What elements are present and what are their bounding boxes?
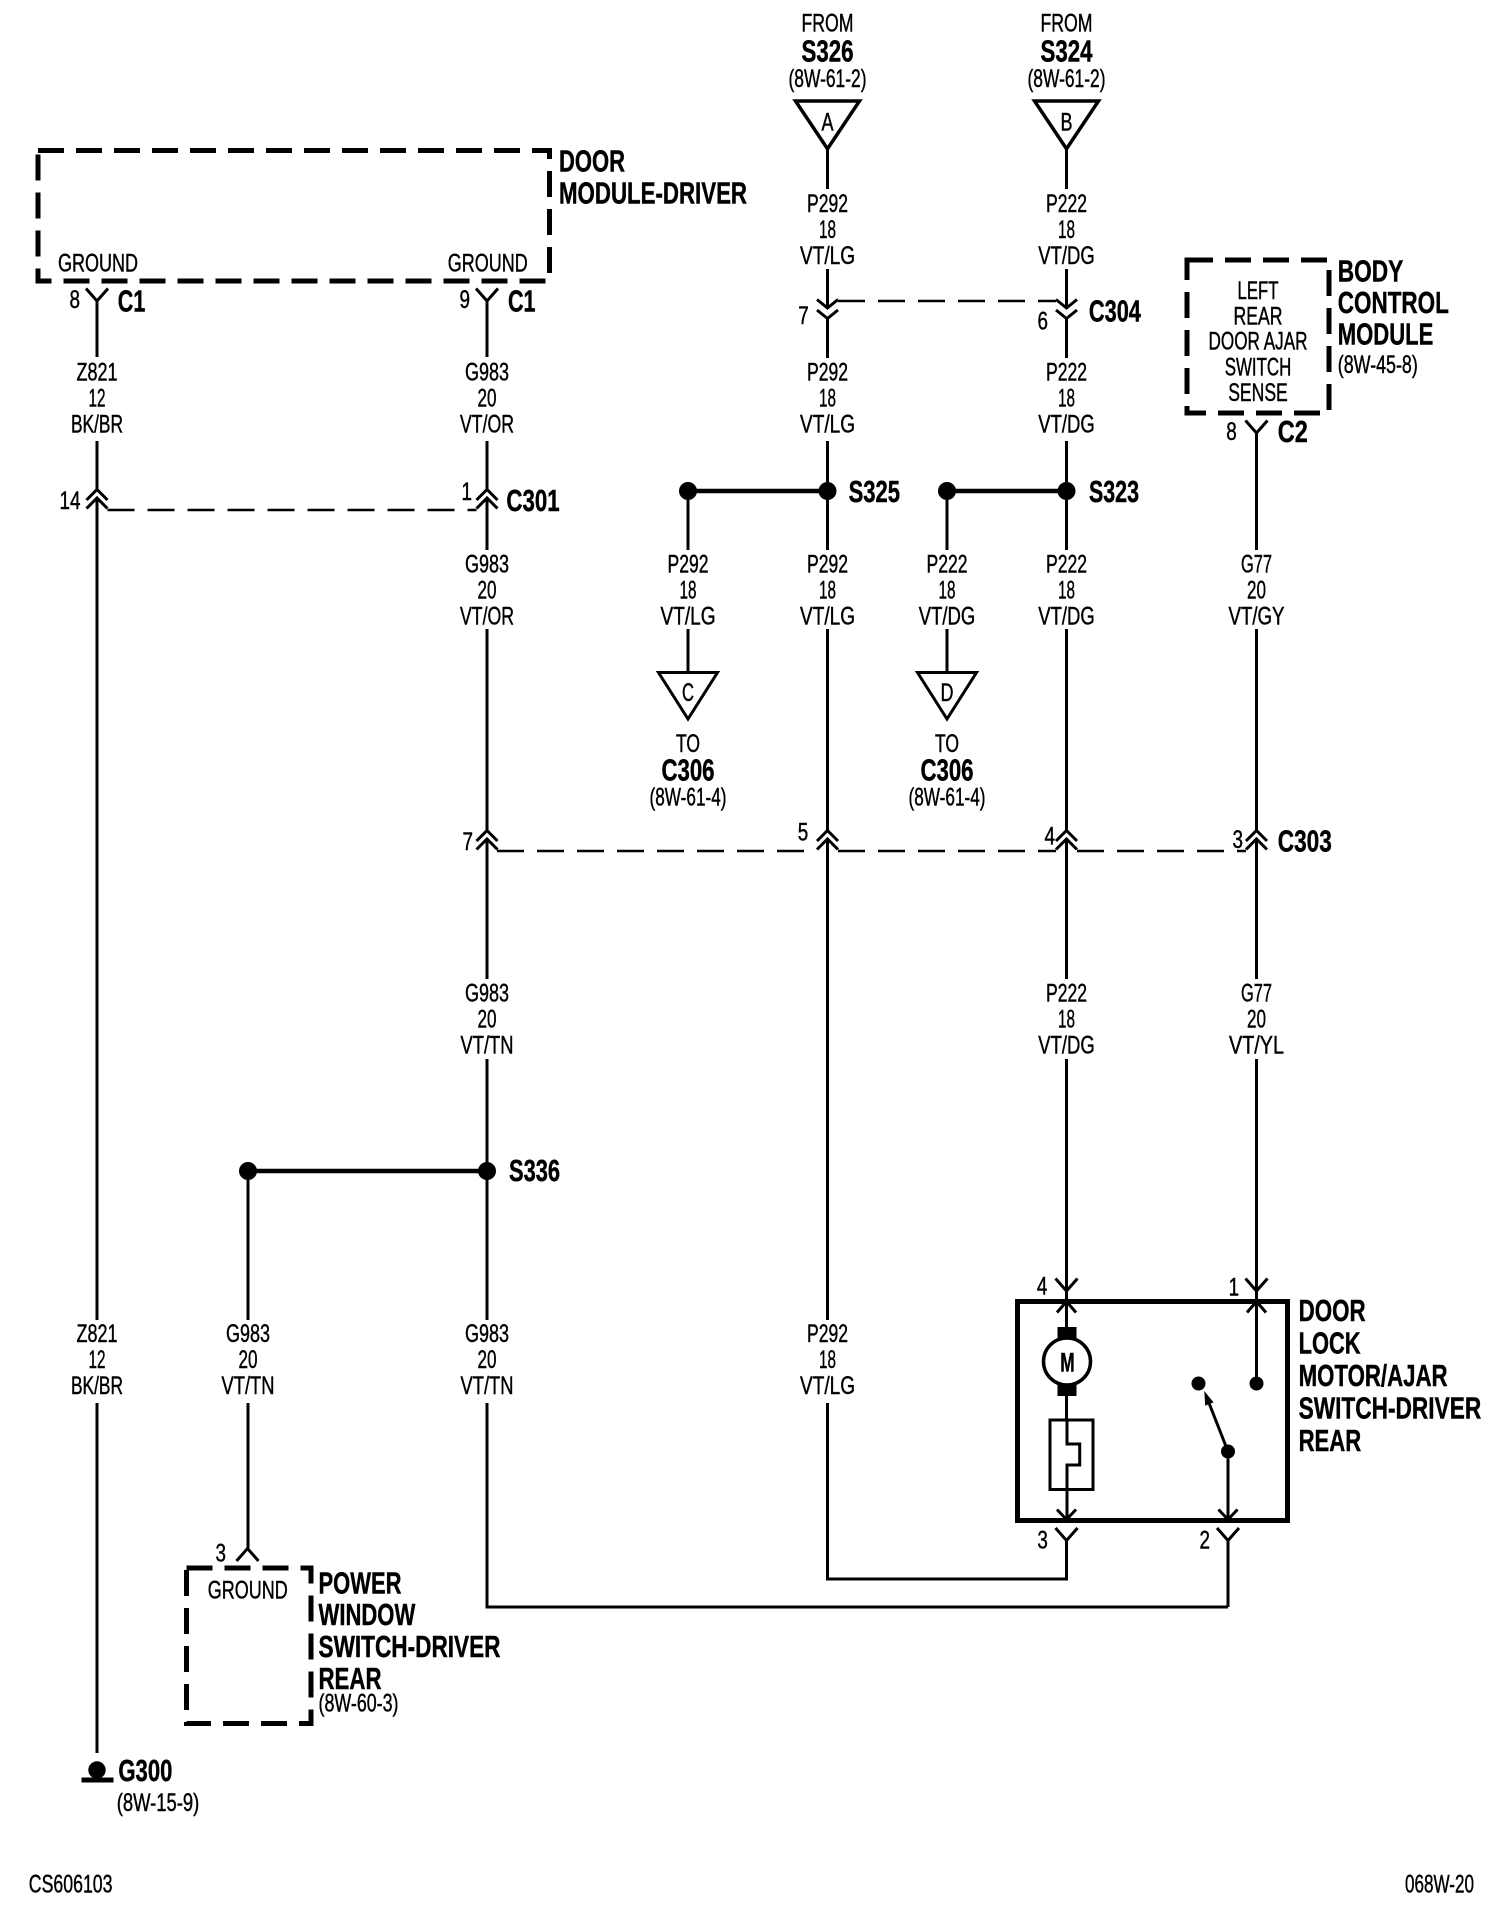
splice S325 branch dot bbox=[679, 482, 697, 500]
wire P222 to door lock motor pin 4 bbox=[1065, 1059, 1068, 1291]
svg-text:18: 18 bbox=[819, 216, 836, 244]
svg-text:P222: P222 bbox=[1046, 358, 1087, 386]
svg-text:(8W-61-4): (8W-61-4) bbox=[650, 783, 727, 811]
svg-text:5: 5 bbox=[798, 818, 809, 846]
in-line connector C303 pin 7 bbox=[477, 831, 498, 842]
svg-text:18: 18 bbox=[680, 576, 697, 604]
wire Z821 to connector C301 pin 14 bbox=[96, 441, 99, 490]
svg-text:D: D bbox=[941, 679, 954, 707]
svg-text:18: 18 bbox=[819, 384, 836, 412]
wire G983 S336 left branch bbox=[247, 1180, 250, 1320]
svg-text:14: 14 bbox=[60, 487, 81, 515]
svg-text:LOCK: LOCK bbox=[1299, 1326, 1361, 1361]
svg-text:G983: G983 bbox=[465, 1320, 509, 1348]
wire P292 to C304 pin 7 bbox=[826, 269, 829, 306]
svg-text:7: 7 bbox=[798, 302, 809, 330]
svg-text:4: 4 bbox=[1037, 1272, 1048, 1300]
svg-text:MOTOR/AJAR: MOTOR/AJAR bbox=[1299, 1358, 1448, 1393]
svg-text:1: 1 bbox=[462, 478, 473, 506]
svg-text:P292: P292 bbox=[807, 1320, 848, 1348]
ajar switch pivot node bbox=[1221, 1445, 1235, 1459]
svg-text:VT/LG: VT/LG bbox=[800, 1372, 855, 1400]
svg-text:20: 20 bbox=[1247, 576, 1266, 604]
svg-text:(8W-61-2): (8W-61-2) bbox=[1028, 65, 1106, 93]
svg-text:S326: S326 bbox=[802, 34, 854, 69]
svg-text:VT/LG: VT/LG bbox=[800, 242, 855, 270]
svg-text:POWER: POWER bbox=[319, 1566, 402, 1601]
svg-text:3: 3 bbox=[1037, 1526, 1048, 1554]
svg-text:G983: G983 bbox=[226, 1320, 270, 1348]
svg-text:S324: S324 bbox=[1041, 34, 1094, 69]
svg-text:VT/TN: VT/TN bbox=[222, 1372, 275, 1400]
wire G983 to splice S336 bbox=[486, 1059, 489, 1163]
svg-text:Z821: Z821 bbox=[77, 358, 118, 386]
svg-text:VT/GY: VT/GY bbox=[1229, 602, 1285, 630]
svg-text:DOOR: DOOR bbox=[1299, 1293, 1366, 1328]
wire G983 below S336 bbox=[486, 1179, 489, 1320]
svg-text:VT/DG: VT/DG bbox=[919, 602, 976, 630]
wire P222 to C303 pin 4 bbox=[1065, 629, 1068, 831]
splice S336 branch dot bbox=[239, 1162, 257, 1180]
wire P222 below S323 bbox=[1065, 500, 1068, 550]
svg-text:(8W-45-8): (8W-45-8) bbox=[1338, 351, 1418, 379]
wire G77 to C303 pin 3 bbox=[1255, 629, 1258, 831]
wire P292 S325 branch bbox=[687, 500, 690, 550]
svg-text:18: 18 bbox=[819, 1346, 836, 1374]
in-line connector C303 pin 4 bbox=[1056, 831, 1077, 842]
svg-text:BK/BR: BK/BR bbox=[71, 410, 123, 438]
svg-text:C303: C303 bbox=[1278, 824, 1332, 859]
svg-text:MODULE: MODULE bbox=[1338, 317, 1434, 352]
wire G983 below C303 pin 7 bbox=[486, 840, 489, 980]
wire P292 to door lock motor pin 3 bbox=[828, 1403, 1067, 1579]
svg-text:G983: G983 bbox=[465, 979, 509, 1007]
svg-text:C1: C1 bbox=[118, 284, 146, 319]
off-page triangle C bbox=[659, 673, 718, 720]
svg-text:GROUND: GROUND bbox=[58, 249, 138, 277]
svg-text:LEFT: LEFT bbox=[1238, 277, 1279, 305]
svg-text:(8W-15-9): (8W-15-9) bbox=[117, 1789, 200, 1817]
svg-text:068W-20: 068W-20 bbox=[1405, 1870, 1474, 1898]
wire G983 to door lock switch pin 2 bbox=[487, 1403, 1228, 1607]
connector pin 1 door lock switch bbox=[1246, 1279, 1268, 1292]
svg-text:VT/DG: VT/DG bbox=[1038, 602, 1095, 630]
svg-text:12: 12 bbox=[89, 384, 106, 412]
svg-text:P292: P292 bbox=[807, 358, 848, 386]
svg-text:SWITCH-DRIVER: SWITCH-DRIVER bbox=[319, 1629, 501, 1664]
wire G983 branch to power window switch bbox=[247, 1403, 250, 1549]
svg-text:S325: S325 bbox=[849, 474, 900, 509]
motor M1 door lock motor bbox=[1058, 1327, 1077, 1339]
wire Z821 to ground G300 bbox=[96, 1403, 99, 1753]
svg-text:C1: C1 bbox=[508, 284, 536, 319]
svg-text:20: 20 bbox=[478, 384, 497, 412]
svg-text:3: 3 bbox=[216, 1539, 227, 1567]
svg-text:CS606103: CS606103 bbox=[29, 1870, 113, 1898]
wire P292 to splice S325 bbox=[826, 441, 829, 482]
wire P292 below C304 bbox=[826, 319, 829, 359]
off-page triangle A bbox=[796, 101, 860, 149]
svg-text:P222: P222 bbox=[1046, 550, 1087, 578]
wire G983 from C1 pin 9 bbox=[486, 301, 489, 357]
svg-text:C301: C301 bbox=[506, 483, 559, 518]
wire Z821 long run bbox=[96, 498, 99, 1320]
connector pin 3 power window switch bbox=[237, 1549, 259, 1562]
in-line connector C303 pin 3 bbox=[1246, 831, 1267, 842]
svg-text:12: 12 bbox=[89, 1346, 106, 1374]
wire motor to ajar switch element bbox=[1065, 1396, 1068, 1420]
svg-text:VT/OR: VT/OR bbox=[460, 410, 514, 438]
wire Z821 from C1 pin 8 bbox=[96, 301, 99, 357]
svg-text:VT/LG: VT/LG bbox=[661, 602, 716, 630]
svg-text:B: B bbox=[1061, 108, 1073, 136]
module box: DOOR MODULE-DRIVER (dashed) bbox=[38, 151, 550, 282]
svg-text:9: 9 bbox=[460, 286, 471, 314]
svg-text:20: 20 bbox=[478, 1346, 497, 1374]
wire G983 below C301 bbox=[486, 498, 489, 550]
svg-text:VT/DG: VT/DG bbox=[1038, 242, 1095, 270]
svg-text:4: 4 bbox=[1045, 822, 1056, 850]
ajar switch contact (throw, left) bbox=[1192, 1377, 1206, 1391]
in-line connector C304 pin 7 bbox=[817, 300, 838, 309]
wire P292 long run to door lock motor bbox=[826, 840, 829, 1321]
connector C1 pin 9 bbox=[476, 289, 498, 302]
svg-text:20: 20 bbox=[478, 576, 497, 604]
svg-text:C: C bbox=[682, 679, 694, 707]
svg-text:DOOR AJAR: DOOR AJAR bbox=[1209, 327, 1308, 355]
svg-text:G77: G77 bbox=[1241, 979, 1272, 1007]
svg-text:DOOR: DOOR bbox=[559, 144, 625, 179]
in-line connector C301 pin 14 bbox=[87, 490, 108, 501]
wire P222 S323 branch bbox=[946, 500, 949, 550]
wire P222 branch to triangle D bbox=[946, 629, 949, 673]
splice S325 bus wire bbox=[688, 489, 828, 494]
svg-text:VT/LG: VT/LG bbox=[800, 602, 855, 630]
wire P292 to C303 pin 5 bbox=[826, 629, 829, 831]
svg-text:P222: P222 bbox=[927, 550, 968, 578]
connector pin 3 door lock motor bbox=[1057, 1510, 1076, 1520]
svg-text:8: 8 bbox=[70, 286, 81, 314]
wire pin 1 to switch contact bbox=[1255, 1302, 1258, 1378]
svg-text:P292: P292 bbox=[807, 550, 848, 578]
svg-text:(8W-60-3): (8W-60-3) bbox=[319, 1689, 399, 1717]
svg-text:2: 2 bbox=[1200, 1526, 1211, 1554]
svg-text:SWITCH-DRIVER: SWITCH-DRIVER bbox=[1299, 1390, 1482, 1425]
splice S323 bus wire bbox=[947, 489, 1067, 494]
svg-text:GROUND: GROUND bbox=[448, 249, 528, 277]
connector C1 pin 8 bbox=[86, 289, 108, 302]
door ajar switch element (position switch) bbox=[1050, 1420, 1093, 1490]
svg-text:P222: P222 bbox=[1046, 979, 1087, 1007]
ground G300 symbol bbox=[88, 1761, 105, 1778]
wire P222 below C303 pin 4 bbox=[1065, 840, 1068, 980]
wire G983 to C301 pin 1 bbox=[486, 441, 489, 490]
wire G983 to C303 pin 7 bbox=[486, 629, 489, 831]
svg-text:P222: P222 bbox=[1046, 190, 1087, 218]
dashed wire C303 bus bbox=[497, 850, 817, 853]
wire switch pivot to pin 2 bbox=[1227, 1459, 1230, 1520]
connector pin 4 door lock motor bbox=[1056, 1279, 1078, 1292]
svg-text:REAR: REAR bbox=[1234, 302, 1283, 330]
wire P292 below S325 bbox=[826, 500, 829, 550]
wire pin 4 to motor bbox=[1065, 1302, 1068, 1328]
splice S323 node bbox=[1058, 482, 1076, 500]
wire P292 below triangle A bbox=[826, 149, 829, 189]
svg-text:CONTROL: CONTROL bbox=[1338, 285, 1449, 320]
svg-text:7: 7 bbox=[463, 828, 474, 856]
svg-text:(8W-61-2): (8W-61-2) bbox=[789, 65, 867, 93]
svg-text:WINDOW: WINDOW bbox=[319, 1597, 416, 1632]
splice S323 branch dot bbox=[938, 482, 956, 500]
svg-text:18: 18 bbox=[939, 576, 956, 604]
svg-text:A: A bbox=[822, 108, 834, 136]
component box: DOOR LOCK MOTOR/AJAR SWITCH-DRIVER REAR bbox=[1018, 1302, 1288, 1521]
svg-text:VT/OR: VT/OR bbox=[460, 602, 514, 630]
svg-text:18: 18 bbox=[1058, 1005, 1075, 1033]
svg-text:REAR: REAR bbox=[1299, 1423, 1362, 1458]
svg-text:SENSE: SENSE bbox=[1228, 379, 1288, 407]
connector C2 pin 8 bbox=[1246, 421, 1268, 434]
wire P292 branch to triangle C bbox=[687, 629, 690, 673]
svg-text:VT/DG: VT/DG bbox=[1038, 410, 1095, 438]
svg-text:20: 20 bbox=[239, 1346, 258, 1374]
svg-text:SWITCH: SWITCH bbox=[1225, 353, 1292, 381]
svg-text:MODULE-DRIVER: MODULE-DRIVER bbox=[559, 175, 747, 210]
svg-text:VT/YL: VT/YL bbox=[1229, 1031, 1284, 1059]
wire P222 to splice S323 bbox=[1065, 441, 1068, 482]
svg-text:8: 8 bbox=[1226, 418, 1237, 446]
off-page triangle D bbox=[918, 673, 977, 720]
svg-text:C304: C304 bbox=[1089, 294, 1142, 329]
splice S325 node bbox=[819, 482, 837, 500]
svg-text:18: 18 bbox=[1058, 576, 1075, 604]
svg-text:1: 1 bbox=[1229, 1273, 1240, 1301]
dashed wire C304 pin7 to pin6 bbox=[838, 300, 1056, 303]
svg-text:20: 20 bbox=[1247, 1005, 1266, 1033]
wire P222 to C304 pin 6 bbox=[1065, 269, 1068, 306]
in-line connector C304 pin 6 bbox=[1056, 300, 1077, 309]
svg-text:G77: G77 bbox=[1241, 550, 1272, 578]
svg-text:VT/TN: VT/TN bbox=[461, 1031, 514, 1059]
svg-text:BODY: BODY bbox=[1338, 254, 1404, 289]
dashed wire C301 pin14 to pin1 bbox=[108, 509, 477, 512]
svg-text:G300: G300 bbox=[118, 1753, 172, 1788]
svg-text:G983: G983 bbox=[465, 550, 509, 578]
svg-text:VT/DG: VT/DG bbox=[1038, 1031, 1095, 1059]
svg-text:C2: C2 bbox=[1278, 414, 1308, 449]
svg-text:18: 18 bbox=[819, 576, 836, 604]
wire G77 from C2 bbox=[1255, 433, 1258, 550]
svg-text:6: 6 bbox=[1038, 307, 1049, 335]
svg-text:20: 20 bbox=[478, 1005, 497, 1033]
in-line connector C301 pin 1 bbox=[477, 490, 498, 501]
svg-text:18: 18 bbox=[1058, 384, 1075, 412]
svg-text:(8W-61-4): (8W-61-4) bbox=[909, 783, 986, 811]
wire G77 below C303 bbox=[1255, 840, 1258, 980]
svg-text:P292: P292 bbox=[807, 190, 848, 218]
svg-text:BK/BR: BK/BR bbox=[71, 1372, 123, 1400]
svg-text:M: M bbox=[1060, 1347, 1074, 1377]
ajar switch contact (pole from pin 1) bbox=[1250, 1377, 1264, 1391]
wire P222 below triangle B bbox=[1065, 149, 1068, 189]
svg-text:VT/LG: VT/LG bbox=[800, 410, 855, 438]
svg-text:3: 3 bbox=[1233, 826, 1244, 854]
svg-text:GROUND: GROUND bbox=[208, 1576, 288, 1604]
svg-text:Z821: Z821 bbox=[77, 1320, 118, 1348]
in-line connector C303 pin 5 bbox=[817, 831, 838, 842]
svg-text:P292: P292 bbox=[668, 550, 709, 578]
svg-text:S323: S323 bbox=[1089, 474, 1139, 509]
svg-text:S336: S336 bbox=[509, 1153, 560, 1188]
svg-text:VT/TN: VT/TN bbox=[461, 1372, 514, 1400]
module box: POWER WINDOW SWITCH-DRIVER REAR (dashed) bbox=[187, 1568, 312, 1724]
ajar switch movable arm with arrow bbox=[1209, 1404, 1228, 1452]
splice S336 node bbox=[478, 1162, 496, 1180]
svg-text:G983: G983 bbox=[465, 358, 509, 386]
off-page triangle B bbox=[1035, 101, 1099, 149]
module box: BODY CONTROL MODULE (dashed) bbox=[1187, 260, 1329, 413]
connector pin 2 door lock switch bbox=[1219, 1510, 1238, 1520]
wire P222 below C304 bbox=[1065, 319, 1068, 359]
svg-text:18: 18 bbox=[1058, 216, 1075, 244]
wire G77 to door lock switch pin 1 bbox=[1255, 1059, 1258, 1291]
splice S336 bus wire bbox=[248, 1169, 487, 1174]
